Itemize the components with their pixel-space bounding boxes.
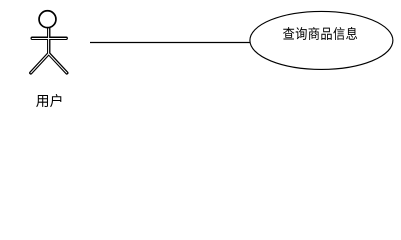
wire: association line from actor to use case [90,42,252,44]
actor: limbs core (white pass) [31,28,67,73]
actor: head [39,11,56,28]
label: 用户 (User) [36,94,61,107]
use case ellipse [250,11,393,69]
actor: limbs outline (black pass) [31,28,67,73]
label: 查询商品信息 (query product info) [283,27,357,40]
